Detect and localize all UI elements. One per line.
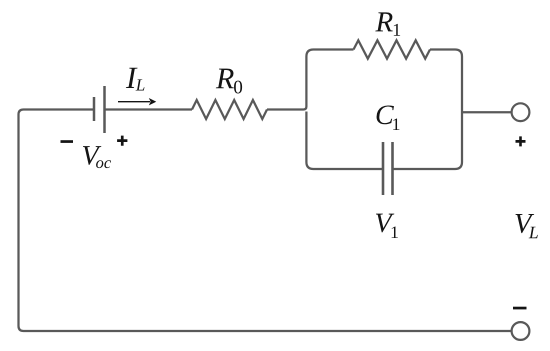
label V_1 [376,214,398,238]
label R_1 [375,12,400,35]
capacitor C1 (left plate) [382,142,385,195]
output plus sign [516,136,526,146]
wire: parallel branch to positive output terminal [462,111,512,113]
wire: parallel-branch frame left (top-left stub, left edge, bottom-left stub) [306,50,383,170]
terminal circle: negative output [512,322,530,340]
label R_0 [216,69,242,94]
label C_1 [377,105,400,130]
label V_oc [83,146,111,168]
label I_L [126,68,145,91]
battery minus sign [61,140,74,143]
label V_L [515,214,537,238]
wire: resistor R0 to parallel branch [267,107,306,110]
resistor R0 [192,100,267,119]
battery plus sign [117,136,127,146]
battery V_oc (long positive plate) [103,86,106,133]
terminal circle: positive output [512,103,530,121]
output minus sign [513,307,527,310]
wire: parallel-branch frame right (top-right stub, right edge, bottom-right stub) [393,50,463,170]
wire: battery positive to resistor R0 [105,108,193,110]
battery V_oc (short negative plate) [93,97,96,121]
capacitor C1 (right plate) [391,142,394,195]
wire: return loop from battery negative to output negative terminal [19,110,512,332]
current arrow I_L [118,99,155,104]
resistor R1 [354,40,431,58]
